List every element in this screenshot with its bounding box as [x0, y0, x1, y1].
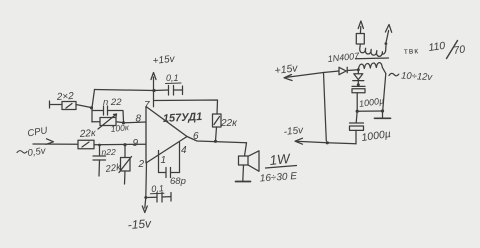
svg-text:-15v: -15v: [283, 125, 304, 138]
transformer primary lead 2 with arrow: [385, 25, 392, 45]
op-amp U1 triangle: [146, 107, 187, 164]
svg-text:твк: твк: [404, 45, 420, 56]
node D: [123, 143, 126, 146]
svg-text:7: 7: [144, 100, 150, 111]
node supply mid: [356, 110, 359, 113]
pin 1 wire: [158, 151, 160, 173]
wire bottom supply: [327, 143, 356, 144]
node ground: [381, 109, 384, 112]
input terminal: [49, 101, 51, 108]
pin 7 wire: [153, 77, 155, 107]
wire input with arrow: [33, 139, 78, 145]
potentiometer 100k: [92, 114, 124, 129]
resistor 22k feedback: [213, 114, 222, 141]
label ~10÷12v: [389, 71, 434, 84]
svg-text:4: 4: [181, 145, 187, 156]
speaker: [239, 143, 260, 181]
capacitor n22: [92, 106, 124, 122]
node C: [98, 144, 101, 147]
capacitor 0,1 top: [154, 86, 183, 96]
node D2 cap: [357, 83, 360, 86]
node output: [214, 140, 217, 143]
wire feedback rail: [155, 100, 218, 114]
svg-text:1W: 1W: [269, 151, 292, 168]
svg-text:8: 8: [136, 114, 142, 125]
transformer primary lead 1 with arrow: [356, 21, 364, 47]
svg-text:-15v: -15v: [127, 216, 152, 232]
svg-text:110: 110: [428, 40, 446, 54]
-15v arrow: [142, 198, 147, 213]
svg-text:1: 1: [161, 155, 167, 166]
label TVK 110/70: [404, 40, 467, 59]
label 0,1 bottom: [151, 183, 165, 194]
svg-text:9: 9: [133, 138, 139, 149]
capacitor 68p: [159, 168, 180, 178]
wire pin 8: [124, 121, 147, 124]
wire left vertical: [324, 73, 327, 141]
resistor 2×2: [62, 102, 76, 110]
diode D1 1N4007: [324, 67, 359, 75]
label 0,1 top: [166, 73, 182, 84]
pin 2 wire: [145, 162, 148, 198]
svg-text:68p: 68p: [170, 176, 186, 187]
svg-text:100к: 100к: [110, 122, 130, 134]
wire top rail: [95, 90, 155, 91]
svg-text:n22: n22: [102, 147, 116, 157]
svg-text:157УД1: 157УД1: [163, 111, 203, 125]
node vminus: [144, 196, 147, 199]
wire to ground: [357, 110, 382, 112]
svg-text:22к: 22к: [220, 118, 238, 129]
trimmer 22k: [119, 145, 132, 184]
label ~0,5v: [17, 145, 47, 159]
capacitor 1000u upper: [352, 86, 365, 111]
svg-text:22к: 22к: [78, 128, 97, 140]
svg-text:10÷12v: 10÷12v: [401, 71, 434, 84]
node pin7: [152, 89, 155, 92]
wire secondary right: [383, 74, 386, 112]
wire output: [187, 137, 247, 143]
+15v arrow right: [284, 73, 324, 81]
node A: [90, 106, 93, 109]
capacitor 0,1 bottom: [146, 193, 171, 203]
wire: [50, 104, 63, 106]
ground speaker: [236, 181, 251, 183]
transformer core: [356, 57, 389, 60]
node bottom supply: [326, 141, 329, 144]
svg-text:2×2: 2×2: [55, 91, 74, 103]
transformer secondary winding: [358, 63, 386, 74]
pin 4 wire: [179, 143, 181, 173]
node D1D2: [357, 68, 360, 71]
capacitor 1000u lower: [350, 111, 364, 144]
wire pin 9: [94, 143, 146, 146]
transformer T1 primary winding: [360, 45, 386, 56]
svg-text:70: 70: [453, 43, 466, 57]
-15v arrow right: [295, 138, 327, 144]
capacitor n22 lower: [93, 145, 106, 176]
svg-text:0,1: 0,1: [166, 73, 179, 83]
wire: [76, 105, 91, 108]
+15v arrow: [151, 73, 156, 80]
node B: [122, 121, 125, 124]
label 1W: [266, 151, 297, 168]
wire: [92, 90, 95, 123]
svg-text:2: 2: [138, 159, 145, 170]
resistor 22k input: [78, 140, 94, 149]
ground supply: [375, 111, 391, 118]
diode D2: [353, 70, 364, 86]
svg-text:n 22: n 22: [103, 97, 122, 108]
svg-text:0,1: 0,1: [151, 183, 164, 194]
